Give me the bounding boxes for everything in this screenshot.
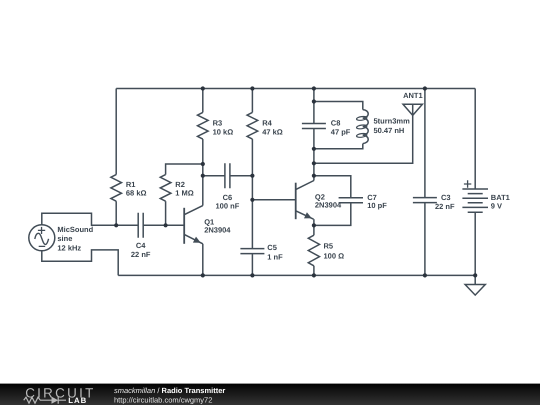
- capacitor C7: [339, 198, 363, 203]
- node dots: [114, 86, 477, 277]
- wire R5 bottom: [313, 266, 315, 276]
- wire R1 branch from rail: [115, 89, 117, 175]
- svg-text:50.47 nH: 50.47 nH: [374, 126, 405, 135]
- wire top rail: [116, 88, 475, 90]
- node gnd-bat: [473, 273, 477, 277]
- transistor Q1: [184, 206, 231, 244]
- wire tank bottom edge: [314, 144, 363, 149]
- node rail-R4: [250, 86, 254, 90]
- node rail-C3: [423, 86, 427, 90]
- node gnd-Q1e: [201, 273, 205, 277]
- capacitor C3: [413, 198, 437, 203]
- node input: [114, 223, 118, 227]
- node rail-R3: [201, 86, 205, 90]
- wire C7 bottom to emitter node: [314, 203, 351, 226]
- capacitor C8: [302, 124, 326, 129]
- capacitor C6: [225, 163, 230, 188]
- transistor Q2: [296, 181, 342, 220]
- node gnd-C3: [423, 273, 427, 277]
- resistor R5: [308, 235, 319, 266]
- wire C4 right to base node: [143, 224, 184, 226]
- wire source bottom return: [42, 250, 118, 276]
- wire source top to C4: [42, 213, 138, 225]
- svg-text:C3: C3: [441, 193, 451, 202]
- svg-text:9 V: 9 V: [491, 201, 502, 210]
- node Q2base: [250, 198, 254, 202]
- svg-text:ANT1: ANT1: [403, 91, 423, 100]
- resistor R4: [251, 89, 253, 113]
- wire antenna feed: [314, 115, 413, 163]
- svg-text:C8: C8: [331, 119, 341, 128]
- wire Q2 base: [252, 199, 295, 201]
- wire R4 bottom down to C5: [251, 139, 253, 249]
- svg-text:smackmillan / Radio Transmitte: smackmillan / Radio Transmitter: [114, 386, 225, 395]
- wire Q2 emitter to node: [313, 219, 315, 235]
- svg-text:1 nF: 1 nF: [267, 253, 283, 262]
- node C7-top: [312, 174, 316, 178]
- svg-text:C5: C5: [267, 243, 277, 252]
- node gnd-C5: [250, 273, 254, 277]
- ground: [465, 275, 485, 295]
- wire ground rail: [118, 274, 475, 276]
- wire tank top edge: [314, 102, 363, 110]
- resistor R1: [111, 175, 122, 202]
- node R2top-collector: [201, 162, 205, 166]
- wire battery rail corner: [474, 89, 476, 190]
- wire Q1 collector up through R3 bottom: [202, 139, 204, 206]
- footer bar: [0, 384, 540, 405]
- wire C7 top: [314, 176, 351, 198]
- wire R1 bottom: [115, 201, 117, 225]
- svg-text:2N3904: 2N3904: [204, 226, 231, 235]
- battery BAT1: [462, 180, 509, 212]
- inductor L1: [356, 110, 410, 144]
- node C6-collector: [201, 174, 205, 178]
- svg-text:MicSound: MicSound: [57, 225, 93, 234]
- svg-text:R4: R4: [262, 119, 272, 128]
- svg-text:22 nF: 22 nF: [131, 250, 151, 259]
- resistor R3: [198, 112, 209, 139]
- node Q2emitter: [312, 223, 316, 227]
- svg-text:5turn3mm: 5turn3mm: [374, 116, 411, 125]
- node ant-feed: [312, 161, 316, 165]
- svg-text:R2: R2: [175, 180, 185, 189]
- capacitor C4: [138, 213, 143, 238]
- wire C3 drop: [424, 89, 426, 198]
- capacitor C5: [240, 249, 264, 254]
- svg-text:C6: C6: [223, 193, 233, 202]
- wire C6 row: [203, 175, 253, 177]
- wire Q1 emitter down to ground rail: [202, 244, 204, 276]
- svg-text:2N3904: 2N3904: [315, 201, 342, 210]
- wire C5 bottom: [251, 254, 253, 276]
- voltage source V1 MicSound: [29, 225, 94, 253]
- resistor R2: [160, 175, 171, 202]
- svg-text:100 nF: 100 nF: [216, 202, 240, 211]
- antenna ANT1: [403, 91, 423, 116]
- svg-text:47 kΩ: 47 kΩ: [262, 127, 283, 136]
- wire R2 top to collector node: [166, 164, 203, 175]
- wire battery bottom: [474, 212, 476, 275]
- wire R2 branch: [165, 201, 167, 225]
- node Q1base: [164, 223, 168, 227]
- wire C8 bottom: [313, 129, 315, 149]
- svg-text:LAB: LAB: [68, 396, 87, 405]
- svg-text:10 kΩ: 10 kΩ: [213, 127, 234, 136]
- wire Q2 collector vertical: [313, 149, 315, 181]
- svg-text:R5: R5: [324, 242, 334, 251]
- svg-text:R1: R1: [126, 180, 136, 189]
- svg-text:100 Ω: 100 Ω: [324, 251, 345, 260]
- svg-text:sine: sine: [57, 234, 72, 243]
- node gnd-R5: [312, 273, 316, 277]
- node rail-tank: [312, 86, 316, 90]
- svg-text:http://circuitlab.com/cwgmy72: http://circuitlab.com/cwgmy72: [114, 395, 212, 404]
- svg-text:10 pF: 10 pF: [367, 201, 387, 210]
- wire tank stem from rail: [313, 89, 315, 124]
- node C6-R4: [250, 174, 254, 178]
- svg-text:68 kΩ: 68 kΩ: [126, 189, 147, 198]
- wire R3 top: [202, 89, 204, 113]
- node tank-top: [312, 99, 316, 103]
- svg-text:47 pF: 47 pF: [331, 128, 351, 137]
- wire C3 bottom: [424, 203, 426, 276]
- svg-text:R3: R3: [213, 119, 223, 128]
- svg-text:C4: C4: [136, 241, 146, 250]
- svg-text:22 nF: 22 nF: [435, 202, 455, 211]
- svg-text:1 MΩ: 1 MΩ: [175, 189, 194, 198]
- svg-text:12 kHz: 12 kHz: [57, 243, 81, 252]
- logo circuitlab: [24, 385, 96, 405]
- node tank-bottom: [312, 147, 316, 151]
